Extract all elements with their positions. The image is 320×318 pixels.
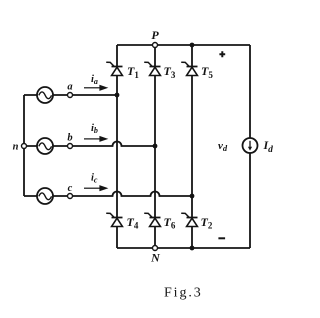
svg-text:vd: vd xyxy=(218,140,228,153)
svg-text:T2: T2 xyxy=(201,215,213,231)
svg-text:c: c xyxy=(68,183,73,194)
svg-text:a: a xyxy=(67,82,72,93)
svg-text:T5: T5 xyxy=(201,64,213,80)
svg-text:ib: ib xyxy=(91,123,98,135)
svg-text:n: n xyxy=(13,142,19,153)
svg-text:Fig.3: Fig.3 xyxy=(164,286,203,301)
svg-text:T1: T1 xyxy=(127,64,139,80)
svg-text:b: b xyxy=(67,133,72,144)
svg-text:Id: Id xyxy=(263,138,274,155)
svg-text:ic: ic xyxy=(91,172,98,184)
svg-text:ia: ia xyxy=(91,74,98,86)
svg-text:N: N xyxy=(150,251,161,265)
svg-text:T3: T3 xyxy=(164,64,176,80)
svg-text:P: P xyxy=(151,28,159,42)
svg-text:T4: T4 xyxy=(127,215,139,231)
svg-text:T6: T6 xyxy=(164,215,176,231)
